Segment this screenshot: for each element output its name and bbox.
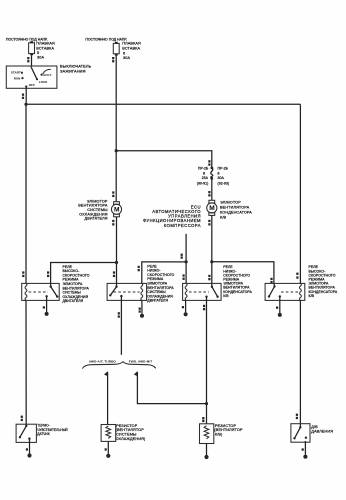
motor M2: condenser fan motor (207, 200, 217, 215)
ground dot K1 (45, 312, 49, 316)
wire color mark relay1 pin (47, 271, 49, 277)
svg-text:РЕЗИСТОР: РЕЗИСТОР (215, 424, 237, 428)
wire: left branch down to resistor1 (107, 372, 109, 425)
svg-text:30А: 30А (37, 56, 44, 60)
label: fusible link 6 30A (122, 41, 141, 60)
svg-text:ПОСТОЯННО ПОД НАПР.: ПОСТОЯННО ПОД НАПР. (85, 37, 127, 41)
wire: relay K2 coil ground (141, 300, 143, 313)
svg-text:КОМПРЕССОРА: КОМПРЕССОРА (164, 223, 201, 228)
svg-text:КОНДЕНСАТОРА: КОНДЕНСАТОРА (220, 211, 252, 215)
svg-text:СИСТЕМЫ: СИСТЕМЫ (116, 433, 137, 437)
wire color mark relay4 pin (270, 278, 272, 284)
wire: ignition OFF output down (25, 87, 27, 105)
thermo sensor switch (19, 425, 31, 440)
svg-text:ДВИГАТЕЛЯ: ДВИГАТЕЛЯ (147, 299, 168, 303)
svg-text:ЗАЖИГАНИЯ: ЗАЖИГАНИЯ (60, 68, 86, 73)
wire: fuse6 down (115, 55, 117, 150)
svg-text:(ВЕНТИЛЯТОР: (ВЕНТИЛЯТОР (116, 428, 145, 432)
pressure switch contacts (293, 426, 307, 439)
relay K2 switch (109, 283, 123, 297)
label: resistor condenser fan (214, 424, 243, 437)
svg-text:6: 6 (123, 51, 125, 55)
pressure switch box (291, 424, 310, 443)
svg-text:(92-93): (92-93) (218, 181, 230, 185)
label: relay K1 (63, 265, 90, 303)
relay K1 linkage (dashed) (29, 291, 48, 293)
ground dot thermo (27, 453, 31, 457)
wire color mark relay1 coil wire (22, 271, 24, 277)
label: relay K3 (223, 265, 252, 298)
wire: relay K4 output to ground dot (279, 297, 281, 314)
svg-text:25А: 25А (202, 176, 209, 180)
wire: fuse5 to ignition switch (31, 55, 33, 66)
svg-text:FWD, AWD-М/Т: FWD, AWD-М/Т (129, 360, 152, 364)
wire: fuse6 column down to engine fan motor (115, 151, 117, 202)
label: PR-2B 8 30A (92-93) (218, 167, 230, 186)
accy arc (43, 69, 51, 74)
relay K2 linkage (dashed) (114, 291, 140, 293)
relay K1 coil (25, 283, 27, 300)
relay K2 coil (141, 283, 143, 300)
wire: left column relay1 coil to thermo sensor (25, 300, 27, 425)
svg-text:ДАТЧИК: ДАТЧИК (37, 432, 49, 436)
relay K4 linkage (dashed) (281, 291, 298, 293)
fuse PR-2B (wavy) (210, 167, 213, 180)
relay K2 box: low-speed engine fan relay (107, 283, 147, 300)
resistor R1 box (101, 425, 116, 442)
junction ECU wire (185, 260, 188, 263)
svg-text:OFF: OFF (29, 83, 35, 87)
brace (82, 362, 155, 369)
wire color mark ECU lower (183, 274, 185, 280)
svg-text:ДВИГАТЕЛЯ: ДВИГАТЕЛЯ (85, 217, 108, 221)
svg-text:ЭЛ/МОТОР: ЭЛ/МОТОР (220, 201, 241, 205)
wire: ECU output (185, 234, 187, 284)
svg-text:(90-91): (90-91) (197, 181, 209, 185)
wire: fuse to condenser motor (211, 178, 213, 200)
ignition switch internals (11, 67, 52, 88)
svg-text:ДВИГАТЕЛЯ: ДВИГАТЕЛЯ (63, 299, 84, 303)
lever (31, 67, 37, 79)
wire color mark ECU upper (181, 254, 183, 259)
wire: motor1 down (116, 217, 118, 284)
wire: resistor2 to ground dot (206, 443, 208, 455)
wire: left main vertical (to relay1 coil and thermo sensor) (25, 104, 27, 283)
label: resistor engine cooling fan (116, 424, 146, 441)
fusible link 6 (30A) (113, 42, 119, 56)
svg-text:ПЛАВКАЯ: ПЛАВКАЯ (36, 41, 55, 45)
junction (24, 103, 27, 106)
label: condenser fan motor (220, 201, 252, 220)
wire color mark above thermo sensor (21, 416, 23, 421)
wire: branch to relay4 switch (212, 262, 274, 284)
wire: pressure switch to ground dot (304, 441, 306, 455)
wire: branch to relay1 switch (51, 263, 117, 284)
wire color mark (112, 57, 114, 62)
wire: main horizontal bus from ignition (26, 103, 301, 105)
relay K4 switch (268, 283, 281, 297)
thermo sensor box (16, 424, 36, 442)
wire: right vertical (to relay4 coil and pressure switch) (299, 104, 301, 283)
ground dot K4 (278, 313, 282, 317)
svg-text:LOCK: LOCK (39, 80, 48, 84)
label: PR-2B 8 25A (90-91) (197, 167, 209, 186)
wire color mark above motor1 (112, 191, 114, 197)
wire: relay K3 coil ground (185, 300, 187, 312)
relay K3 switch (205, 283, 219, 298)
svg-text:К/В: К/В (220, 215, 227, 219)
svg-text:ВСТАВКА: ВСТАВКА (36, 46, 54, 50)
svg-text:ПР-2Б: ПР-2Б (198, 167, 209, 171)
ground dot pressure switch (303, 455, 307, 459)
svg-text:ОХЛАЖДЕНИЯ): ОХЛАЖДЕНИЯ) (116, 437, 146, 441)
ground dot K3 coil (184, 312, 188, 316)
svg-text:ACCY: ACCY (43, 73, 52, 77)
ignition switch box (6, 66, 57, 88)
wire: relay K3 output down to resistor2 (206, 297, 208, 424)
svg-text:RUN: RUN (14, 76, 21, 80)
svg-text:M: M (209, 205, 215, 212)
wire: to relay2 coil (142, 262, 186, 284)
relay K4 box: high-speed condenser fan relay (265, 283, 305, 300)
label: ignition switch (60, 64, 92, 74)
svg-text:START: START (11, 70, 21, 74)
ground dot K2 coil (140, 314, 144, 318)
wire color mark (203, 305, 205, 311)
label: relay K2 (147, 264, 174, 302)
svg-text:30А: 30А (123, 56, 130, 60)
wire: motor2 down (211, 215, 213, 283)
wire: resistor1 to ground dot (107, 441, 109, 453)
svg-text:(ВЕНТИЛЯТОР: (ВЕНТИЛЯТОР (214, 428, 243, 432)
relay K1 switch (45, 283, 58, 297)
junction motor2 bottom (210, 260, 213, 263)
wire: right branch down and right to resistor2 wire (137, 372, 206, 404)
ground dot resistor2 (204, 455, 208, 459)
svg-text:AWD-А/Т, TURBO: AWD-А/Т, TURBO (89, 360, 117, 364)
wire color mark below motor2 (208, 220, 210, 226)
wire color mark B (27, 57, 29, 62)
wire: relay K1 output to ground dot (46, 296, 48, 312)
svg-text:ПЛАВКАЯ: ПЛАВКАЯ (122, 41, 141, 45)
split annotation: AWD-A/T TURBO vs FWD AWD-M/T (82, 360, 155, 377)
wire color mark above resistor2 (202, 417, 204, 422)
junction at resistor2 wire (205, 402, 208, 405)
relay K3 linkage (dashed) (189, 291, 209, 293)
svg-text:ВСТАВКА: ВСТАВКА (122, 47, 140, 51)
wire color mark relay3 pin (208, 275, 210, 281)
wire: horizontal to PR-2B fuse (116, 151, 212, 168)
wire color mark (208, 191, 210, 197)
relay K4 coil (299, 283, 301, 300)
wire color mark below motor1 (112, 220, 114, 226)
svg-text:5: 5 (37, 51, 39, 55)
motor M1: engine cooling fan motor (111, 202, 121, 217)
svg-text:M: M (114, 207, 120, 214)
wire: thermo to ground dot (29, 439, 31, 454)
svg-text:ВЕНТИЛЯТОРА: ВЕНТИЛЯТОРА (220, 206, 250, 210)
arrow right branch (134, 371, 138, 376)
wire color mark relay2 coil (138, 266, 140, 272)
svg-text:8: 8 (218, 172, 220, 176)
arrow left branch (104, 371, 108, 376)
svg-text:30А: 30А (218, 176, 225, 180)
label: relay K4 (309, 265, 338, 298)
svg-text:К/В: К/В (223, 294, 229, 298)
wire color mark above pressure switch (296, 414, 298, 419)
relay K3 coil (185, 283, 187, 300)
wire: relay K2 output down to split (120, 296, 122, 355)
wire: right column relay4 coil to pressure switch (299, 300, 301, 427)
svg-text:ДАВЛЕНИЯ: ДАВЛЕНИЯ (311, 430, 333, 434)
svg-text:К/В: К/В (309, 294, 315, 298)
junction motor1 bottom (115, 261, 118, 264)
resistor R2 box (200, 424, 214, 444)
wire color mark relay2 pin (113, 271, 115, 277)
resistor R2 zigzag (204, 426, 209, 439)
wire color mark (22, 94, 24, 100)
fusible link 5 (30A) (29, 41, 35, 55)
label: A/C pressure switch (311, 425, 333, 433)
svg-text:ПР-2Б: ПР-2Б (218, 167, 229, 171)
svg-text:К/В): К/В) (215, 433, 223, 437)
label: engine cooling fan motor (78, 199, 108, 220)
ground dot resistor1 (106, 454, 110, 458)
label: thermo sensor (37, 424, 68, 437)
wire color mark above PR-2B (208, 160, 210, 166)
wire color mark relay4 coil wire (296, 273, 298, 279)
wire color mark (118, 312, 120, 317)
svg-text:8: 8 (203, 172, 205, 176)
label: ECU block (143, 204, 201, 227)
relay K1 box: high-speed engine fan relay (22, 283, 60, 300)
label: fusible link 5 30A (36, 41, 55, 59)
resistor R1 zigzag (106, 426, 111, 439)
relay K3 box: low-speed condenser fan relay (183, 283, 222, 300)
